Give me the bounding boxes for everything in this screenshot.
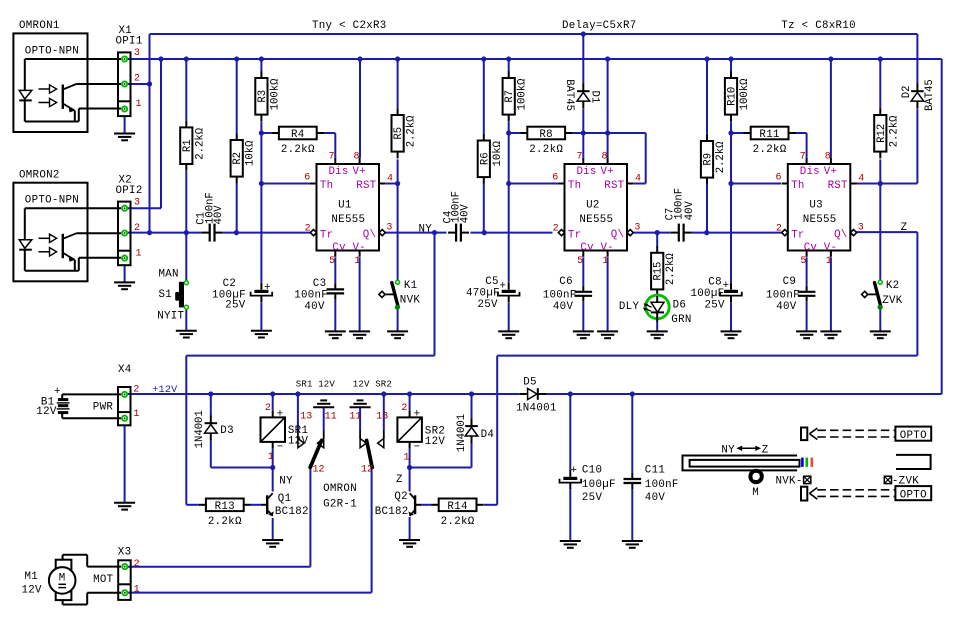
svg-text:25V: 25V (582, 492, 603, 504)
svg-text:NY: NY (721, 444, 735, 456)
svg-text:11: 11 (349, 412, 361, 423)
svg-text:12V: 12V (36, 406, 57, 418)
svg-text:R4: R4 (291, 129, 305, 141)
svg-text:100kΩ: 100kΩ (269, 78, 281, 110)
svg-text:100µF: 100µF (691, 288, 725, 300)
svg-text:2.2kΩ: 2.2kΩ (888, 115, 900, 147)
svg-text:2: 2 (265, 403, 271, 414)
svg-text:100nF: 100nF (766, 290, 800, 302)
svg-text:C3: C3 (313, 278, 327, 290)
svg-text:7: 7 (577, 152, 583, 163)
svg-text:NE555: NE555 (803, 214, 837, 226)
svg-text:D1: D1 (588, 91, 600, 104)
svg-text:Dis: Dis (329, 166, 349, 178)
svg-text:40V: 40V (459, 204, 471, 224)
svg-text:Th: Th (320, 180, 333, 192)
svg-text:Tz < C8xR10: Tz < C8xR10 (781, 20, 856, 32)
svg-text:Z: Z (762, 444, 769, 456)
svg-text:MAN: MAN (159, 268, 179, 280)
svg-text:OMRON: OMRON (323, 483, 357, 495)
svg-text:Z: Z (901, 222, 908, 234)
svg-text:1: 1 (134, 585, 140, 596)
svg-text:X3: X3 (118, 547, 132, 559)
svg-text:4: 4 (858, 174, 864, 185)
svg-text:1: 1 (354, 256, 360, 267)
svg-text:1: 1 (404, 453, 410, 464)
svg-text:NYIT: NYIT (157, 311, 184, 323)
svg-text:R14: R14 (447, 501, 467, 513)
svg-text:V+: V+ (353, 166, 366, 178)
svg-text:GRN: GRN (671, 314, 691, 326)
svg-text:100kΩ: 100kΩ (517, 78, 529, 110)
svg-text:OPTO-NPN: OPTO-NPN (25, 195, 79, 207)
svg-text:25V: 25V (705, 300, 726, 312)
svg-text:+: + (277, 409, 284, 421)
svg-text:S1: S1 (159, 289, 173, 301)
svg-text:R10: R10 (727, 87, 739, 106)
svg-text:R1: R1 (182, 139, 194, 152)
svg-text:10kΩ: 10kΩ (245, 140, 257, 166)
svg-text:M: M (59, 573, 66, 585)
svg-text:R12: R12 (876, 124, 888, 143)
svg-text:1N4001: 1N4001 (194, 410, 206, 448)
svg-text:Z: Z (396, 474, 403, 486)
svg-text:12V: 12V (425, 436, 446, 448)
svg-text:M: M (752, 487, 759, 499)
svg-text:RST: RST (828, 180, 848, 192)
svg-text:Q1: Q1 (278, 493, 292, 505)
svg-text:V-: V- (601, 242, 614, 254)
svg-text:R15: R15 (653, 262, 665, 281)
svg-text:Tr: Tr (320, 229, 333, 241)
svg-text:2.2kΩ: 2.2kΩ (194, 127, 206, 159)
svg-text:+: + (54, 386, 61, 398)
svg-text:C5: C5 (485, 276, 499, 288)
svg-text:Cv: Cv (804, 242, 818, 254)
svg-text:2: 2 (553, 224, 559, 235)
svg-text:M1: M1 (25, 571, 39, 583)
svg-text:G2R-1: G2R-1 (323, 499, 357, 511)
svg-text:OPI1: OPI1 (116, 36, 143, 48)
svg-text:RST: RST (356, 180, 376, 192)
svg-text:Th: Th (568, 180, 581, 192)
svg-text:2.2kΩ: 2.2kΩ (406, 115, 418, 147)
svg-text:1: 1 (136, 99, 142, 110)
svg-text:40V: 40V (553, 301, 574, 313)
svg-text:NE555: NE555 (579, 214, 613, 226)
svg-text:C9: C9 (783, 276, 797, 288)
svg-text:2.2kΩ: 2.2kΩ (208, 516, 242, 528)
svg-text:BC182: BC182 (375, 506, 409, 518)
svg-text:12: 12 (313, 465, 325, 476)
svg-text:D4: D4 (481, 429, 495, 441)
svg-text:8: 8 (602, 152, 608, 163)
svg-text:3: 3 (858, 223, 864, 234)
svg-text:100nF: 100nF (543, 290, 577, 302)
svg-text:1N4001: 1N4001 (456, 414, 468, 452)
svg-text:5: 5 (329, 256, 335, 267)
svg-text:R8: R8 (539, 129, 553, 141)
svg-text:R6: R6 (479, 152, 491, 165)
svg-text:2: 2 (134, 74, 140, 85)
svg-text:K1: K1 (404, 280, 418, 292)
svg-text:NY: NY (419, 224, 433, 236)
svg-text:4: 4 (635, 174, 641, 185)
svg-text:PWR: PWR (93, 401, 114, 413)
svg-text:6: 6 (304, 173, 310, 184)
svg-text:Dis: Dis (800, 166, 820, 178)
svg-text:3: 3 (134, 197, 140, 208)
svg-text:12V: 12V (288, 435, 309, 447)
svg-text:D3: D3 (220, 425, 234, 437)
svg-text:DLY: DLY (619, 301, 640, 313)
svg-text:BC182: BC182 (275, 506, 309, 518)
svg-text:470µF: 470µF (466, 288, 500, 300)
svg-text:R7: R7 (504, 90, 516, 103)
svg-text:13: 13 (376, 412, 388, 423)
svg-text:2.2kΩ: 2.2kΩ (281, 144, 315, 156)
svg-text:1: 1 (602, 256, 608, 267)
svg-text:C10: C10 (582, 465, 602, 477)
svg-text:-ZVK: -ZVK (892, 476, 919, 488)
svg-text:U1: U1 (338, 200, 352, 212)
svg-text:C6: C6 (559, 276, 573, 288)
svg-text:12V SR2: 12V SR2 (353, 380, 392, 390)
svg-text:2.2kΩ: 2.2kΩ (441, 516, 475, 528)
svg-text:BAT45: BAT45 (563, 79, 575, 111)
svg-text:OPTO: OPTO (900, 430, 927, 442)
svg-text:40V: 40V (645, 492, 666, 504)
svg-text:NVK: NVK (400, 295, 421, 307)
svg-text:7: 7 (800, 152, 806, 163)
svg-text:−: − (277, 442, 284, 454)
svg-text:NE555: NE555 (331, 214, 365, 226)
svg-text:6: 6 (776, 173, 782, 184)
svg-text:MOT: MOT (93, 574, 114, 586)
svg-text:2: 2 (133, 385, 139, 396)
svg-text:Tr: Tr (568, 229, 581, 241)
svg-text:2.2kΩ: 2.2kΩ (529, 144, 563, 156)
svg-text:−: − (414, 442, 421, 454)
svg-text:OMRON1: OMRON1 (19, 20, 60, 32)
svg-text:40V: 40V (776, 301, 797, 313)
svg-text:Cv: Cv (332, 242, 346, 254)
svg-text:12V: 12V (22, 584, 43, 596)
svg-text:40V: 40V (304, 301, 325, 313)
svg-text:4: 4 (387, 174, 393, 185)
svg-text:Q\: Q\ (834, 229, 847, 241)
svg-text:Delay=C5xR7: Delay=C5xR7 (562, 20, 637, 32)
svg-text:R3: R3 (257, 90, 269, 103)
svg-text:25V: 25V (225, 300, 246, 312)
svg-text:6: 6 (552, 173, 558, 184)
svg-text:5: 5 (577, 256, 583, 267)
svg-text:X4: X4 (118, 364, 132, 376)
svg-text:+: + (500, 281, 507, 293)
svg-text:Cv: Cv (580, 242, 594, 254)
svg-text:5: 5 (800, 256, 806, 267)
svg-text:OPTO-NPN: OPTO-NPN (25, 45, 79, 57)
svg-text:+: + (414, 409, 421, 421)
svg-text:2.2kΩ: 2.2kΩ (665, 253, 677, 285)
svg-text:3: 3 (386, 223, 392, 234)
svg-text:Tny < C2xR3: Tny < C2xR3 (312, 20, 387, 32)
svg-text:1N4001: 1N4001 (516, 403, 557, 415)
svg-text:25V: 25V (478, 299, 499, 311)
svg-text:12: 12 (361, 465, 373, 476)
svg-text:2: 2 (134, 559, 140, 570)
svg-text:100nF: 100nF (645, 479, 679, 491)
svg-text:OPI2: OPI2 (116, 185, 143, 197)
svg-text:2: 2 (776, 224, 782, 235)
svg-text:2: 2 (134, 223, 140, 234)
svg-text:NVK-: NVK- (776, 476, 803, 488)
svg-text:40V: 40V (213, 205, 225, 225)
svg-text:C8: C8 (708, 277, 722, 289)
svg-text:V+: V+ (601, 166, 614, 178)
svg-text:V-: V- (353, 242, 366, 254)
svg-text:100µF: 100µF (582, 479, 616, 491)
svg-text:1: 1 (268, 452, 274, 463)
svg-text:ZVK: ZVK (882, 295, 903, 307)
svg-text:2.2kΩ: 2.2kΩ (753, 144, 787, 156)
svg-text:+: + (571, 465, 578, 477)
svg-text:D6: D6 (673, 300, 687, 312)
svg-text:10kΩ: 10kΩ (492, 140, 504, 166)
svg-text:BAT45: BAT45 (924, 79, 936, 111)
svg-text:Q\: Q\ (611, 229, 624, 241)
svg-text:+12V: +12V (152, 385, 178, 396)
svg-text:R2: R2 (232, 152, 244, 165)
svg-text:13: 13 (300, 412, 312, 423)
svg-text:R11: R11 (759, 129, 779, 141)
svg-text:V-: V- (824, 242, 837, 254)
svg-text:100nF: 100nF (294, 290, 328, 302)
svg-text:SR1 12V: SR1 12V (296, 380, 336, 390)
svg-text:K2: K2 (886, 280, 900, 292)
svg-text:RST: RST (604, 180, 624, 192)
svg-text:3: 3 (634, 223, 640, 234)
svg-text:R13: R13 (215, 501, 235, 513)
svg-text:100kΩ: 100kΩ (739, 78, 751, 110)
svg-text:3: 3 (134, 48, 140, 59)
svg-text:NY: NY (279, 476, 293, 488)
svg-text:8: 8 (354, 152, 360, 163)
svg-text:V+: V+ (824, 166, 837, 178)
svg-text:7: 7 (329, 152, 335, 163)
svg-text:2: 2 (401, 403, 407, 414)
svg-text:U2: U2 (586, 200, 600, 212)
svg-text:OPTO: OPTO (900, 489, 927, 501)
svg-text:D2: D2 (901, 86, 913, 99)
svg-text:2: 2 (305, 224, 311, 235)
svg-text:40V: 40V (684, 200, 696, 220)
svg-text:Q2: Q2 (394, 491, 408, 503)
svg-text:R9: R9 (703, 153, 715, 166)
svg-text:C11: C11 (645, 465, 665, 477)
svg-text:1: 1 (136, 248, 142, 259)
svg-text:Th: Th (791, 180, 804, 192)
svg-text:1: 1 (133, 409, 139, 420)
svg-text:Q\: Q\ (363, 229, 376, 241)
svg-text:R5: R5 (393, 127, 405, 140)
svg-text:+: + (264, 282, 271, 294)
svg-text:8: 8 (825, 152, 831, 163)
svg-text:1: 1 (826, 256, 832, 267)
svg-text:11: 11 (325, 412, 337, 423)
svg-text:C2: C2 (223, 278, 237, 290)
svg-text:Tr: Tr (791, 229, 804, 241)
svg-text:U3: U3 (809, 200, 823, 212)
svg-text:Dis: Dis (577, 166, 597, 178)
svg-text:2.2kΩ: 2.2kΩ (715, 141, 727, 173)
svg-text:OMRON2: OMRON2 (19, 170, 60, 182)
svg-text:D5: D5 (523, 377, 537, 389)
